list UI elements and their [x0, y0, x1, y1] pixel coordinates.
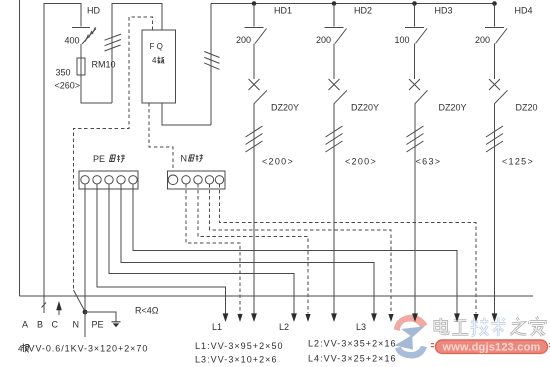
- svg-text:HD2: HD2: [354, 6, 372, 16]
- branch HD1: [245, 1, 268, 313]
- wire bond to earth: [85, 312, 116, 322]
- conductor marks HD2: [326, 126, 343, 152]
- wire PE below bond: [84, 312, 86, 337]
- svg-text:PE: PE: [93, 154, 105, 164]
- watermark logo blue lightning: [401, 326, 425, 337]
- arrow HD2 feeder: [331, 313, 337, 322]
- svg-text:R<4Ω: R<4Ω: [135, 306, 159, 316]
- arrow N feeder L4: [473, 314, 478, 322]
- watermark text gong: [452, 321, 468, 335]
- busbar PE box: [79, 171, 138, 189]
- breaker HD2 blade: [334, 90, 347, 103]
- wire riser x=112 up and across to FQ: [112, 4, 162, 104]
- arrow N feeder L1: [237, 314, 242, 322]
- svg-text:HD3: HD3: [435, 6, 453, 16]
- wire riser x=211 to main bus: [210, 4, 212, 126]
- arrow N feeder L2: [305, 314, 310, 322]
- node HD2 bus junction: [332, 1, 337, 6]
- wire phase A bottom horizontal run: [20, 295, 534, 297]
- wire HD4 drop: [494, 4, 496, 27]
- wire N dashed FQ output to N busbar: [149, 103, 173, 171]
- svg-text:DZ20Y: DZ20Y: [351, 103, 379, 113]
- label FQ 4-pole CJK (ji): [157, 57, 164, 64]
- watermark text shu: [491, 317, 506, 336]
- svg-text:<200>: <200>: [262, 157, 294, 167]
- node HD4 bus junction: [492, 1, 497, 6]
- wire HD1 drop: [253, 4, 255, 27]
- svg-text:4: 4: [152, 56, 157, 65]
- wire HD2 switch to breaker: [333, 44, 335, 80]
- arrow PE feeder L1: [223, 313, 229, 322]
- svg-text:www.dgjs123.com: www.dgjs123.com: [442, 342, 541, 354]
- watermark logo blue arc: [395, 346, 427, 359]
- label cable count CJK (gen): [22, 344, 29, 353]
- wire N dashed into FQ: [74, 17, 153, 290]
- breaker HD4 contact cross: [489, 79, 500, 90]
- wire PE5 to feeder L4: [133, 184, 457, 314]
- breaker HD3 contact cross: [409, 79, 420, 90]
- svg-text:350: 350: [56, 68, 71, 78]
- terminal N5: [215, 176, 223, 184]
- busbar N box: [168, 171, 226, 189]
- fuse RM10 body: [77, 58, 85, 75]
- svg-text:L3: L3: [356, 322, 366, 332]
- node incoming PE bond: [83, 310, 88, 315]
- arrow C incoming direction: [58, 310, 60, 315]
- svg-text:L1:VV-3×95+2×50: L1:VV-3×95+2×50: [195, 341, 284, 351]
- breaker HD2 contact cross: [329, 79, 340, 90]
- svg-text:PE: PE: [92, 320, 104, 330]
- breaker HD1 contact cross: [249, 79, 260, 90]
- svg-text:A: A: [22, 320, 28, 330]
- wire HD4 switch to breaker: [494, 44, 496, 80]
- terminal PE3: [105, 176, 113, 184]
- wire HD2 feeder: [333, 104, 335, 314]
- watermark text jia: [530, 317, 546, 336]
- 3-conductor slashes on riser x=211: [204, 52, 219, 70]
- svg-text:200: 200: [316, 35, 331, 45]
- wire HD3 switch to breaker: [414, 44, 416, 80]
- svg-text:RM10: RM10: [92, 60, 116, 70]
- wire PE1 to earth bond: [84, 184, 86, 310]
- arrow N feeder L3: [388, 314, 393, 322]
- wire N2 to feeder L1: [186, 184, 240, 314]
- 3-phase ticks on HD blade: [85, 27, 95, 41]
- watermark pill end marks: [431, 344, 550, 347]
- label PE busbar CJK (mu-pai): [110, 155, 126, 163]
- arrow PE feeder L3: [371, 313, 377, 322]
- terminal PE4: [117, 176, 125, 184]
- svg-text:HD4: HD4: [515, 6, 533, 16]
- node HD1 bus junction: [252, 1, 257, 6]
- svg-text:C: C: [52, 320, 59, 330]
- arrow HD4 feeder: [492, 313, 498, 322]
- svg-text:DZ20: DZ20: [516, 103, 538, 113]
- wire HD1 feeder: [253, 104, 255, 314]
- terminal PE2: [93, 176, 101, 184]
- svg-text:L1: L1: [212, 322, 222, 332]
- svg-text:200: 200: [236, 35, 251, 45]
- wire PE2 to feeder L1: [97, 184, 226, 314]
- conductor marks HD3: [407, 126, 424, 152]
- svg-text:DZ20Y: DZ20Y: [439, 103, 467, 113]
- watermark text hollow overlay: [435, 317, 546, 337]
- svg-text:N: N: [73, 320, 80, 330]
- knife switch HD2 blade: [335, 29, 347, 44]
- main bus: [211, 3, 495, 5]
- wire N3 to feeder L2: [198, 184, 308, 314]
- watermark text zhi: [510, 318, 526, 335]
- arrow PE feeder L4: [454, 313, 460, 322]
- wire HD3 drop: [414, 4, 416, 27]
- watermark text dian: [435, 318, 469, 335]
- watermark text ji: [471, 318, 489, 336]
- branch HD3: [405, 1, 428, 313]
- svg-text:L3:VV-3×10+2×6: L3:VV-3×10+2×6: [195, 355, 278, 365]
- svg-text:L2:VV-3×35+2×16: L2:VV-3×35+2×16: [308, 339, 397, 349]
- wire N4 to feeder L3: [210, 184, 392, 314]
- breaker HD4 blade: [495, 90, 508, 103]
- watermark red pill: [436, 340, 548, 353]
- knife switch HD3 blade: [416, 29, 428, 44]
- wire phase B riser loop to HD switch: [44, 4, 81, 314]
- knife switch HD4 blade: [496, 29, 508, 44]
- knife switch HD2 bar: [325, 26, 344, 28]
- svg-text:F Q: F Q: [150, 42, 163, 51]
- label N busbar CJK (mu-pai): [189, 154, 204, 162]
- svg-text:L2: L2: [279, 322, 289, 332]
- branch HD4: [485, 1, 508, 313]
- svg-text:L4:VV-3×25+2×16: L4:VV-3×25+2×16: [308, 354, 397, 364]
- terminal N2: [182, 176, 190, 184]
- wire HD3 feeder: [414, 104, 416, 314]
- watermark logo red arc: [394, 315, 428, 331]
- ground: [112, 321, 121, 323]
- wire HD4 feeder: [494, 104, 496, 314]
- knife switch HD 400A blade: [82, 29, 96, 45]
- svg-text:DZ20Y: DZ20Y: [271, 103, 299, 113]
- wire N dashed bond diagonal: [74, 290, 86, 312]
- wire through fuse: [80, 58, 82, 75]
- svg-text:HD1: HD1: [274, 6, 292, 16]
- terminal N1: [168, 175, 178, 185]
- tick on B line: [42, 303, 47, 308]
- arrow HD1 feeder: [251, 313, 257, 322]
- breaker FQ box: [142, 30, 176, 103]
- svg-text:B: B: [37, 320, 43, 330]
- terminal N3: [194, 176, 202, 184]
- knife switch HD4 bar: [485, 26, 504, 28]
- branch HD2: [325, 1, 348, 313]
- 3-conductor slashes on riser x=112: [105, 34, 122, 51]
- svg-text:N: N: [181, 154, 188, 164]
- node HD3 bus junction: [412, 1, 417, 6]
- svg-text:100: 100: [394, 35, 409, 45]
- breaker HD1 blade: [254, 90, 267, 103]
- wire N5 to feeder L4: [220, 184, 477, 314]
- wire PE4 to feeder L3: [121, 184, 374, 314]
- svg-text:400: 400: [65, 36, 80, 46]
- breaker HD3 blade: [415, 90, 428, 103]
- wire PE3 to feeder L2: [109, 184, 294, 314]
- wire HD switch to fuse: [80, 44, 82, 58]
- knife switch HD1 bar: [245, 26, 264, 28]
- svg-text:<63>: <63>: [416, 157, 442, 167]
- knife switch HD1 blade: [255, 29, 267, 44]
- arrow PE feeder L2: [291, 313, 297, 322]
- wire fuse to riser x=112: [81, 75, 112, 103]
- wire HD1 switch to breaker: [253, 44, 255, 80]
- terminal N4: [205, 176, 213, 184]
- knife switch HD3 bar: [405, 26, 424, 28]
- svg-text:<260>: <260>: [55, 81, 81, 91]
- svg-text:<200>: <200>: [345, 157, 377, 167]
- conductor marks HD4: [486, 126, 503, 152]
- terminal PE1: [81, 176, 89, 184]
- arrow HD3 feeder: [412, 313, 418, 322]
- wire phase A incoming vertical: [19, 0, 21, 296]
- wire HD2 drop: [333, 4, 335, 27]
- svg-text:200: 200: [475, 35, 490, 45]
- knife switch HD 400A bar: [72, 26, 90, 28]
- terminal PE5: [129, 176, 137, 184]
- svg-text:HD: HD: [87, 6, 100, 16]
- svg-text:<125>: <125>: [502, 157, 534, 167]
- svg-text:VV-0.6/1KV-3×120+2×70: VV-0.6/1KV-3×120+2×70: [29, 344, 149, 354]
- wire FQ output down and right: [162, 103, 211, 125]
- conductor marks HD1: [246, 126, 263, 152]
